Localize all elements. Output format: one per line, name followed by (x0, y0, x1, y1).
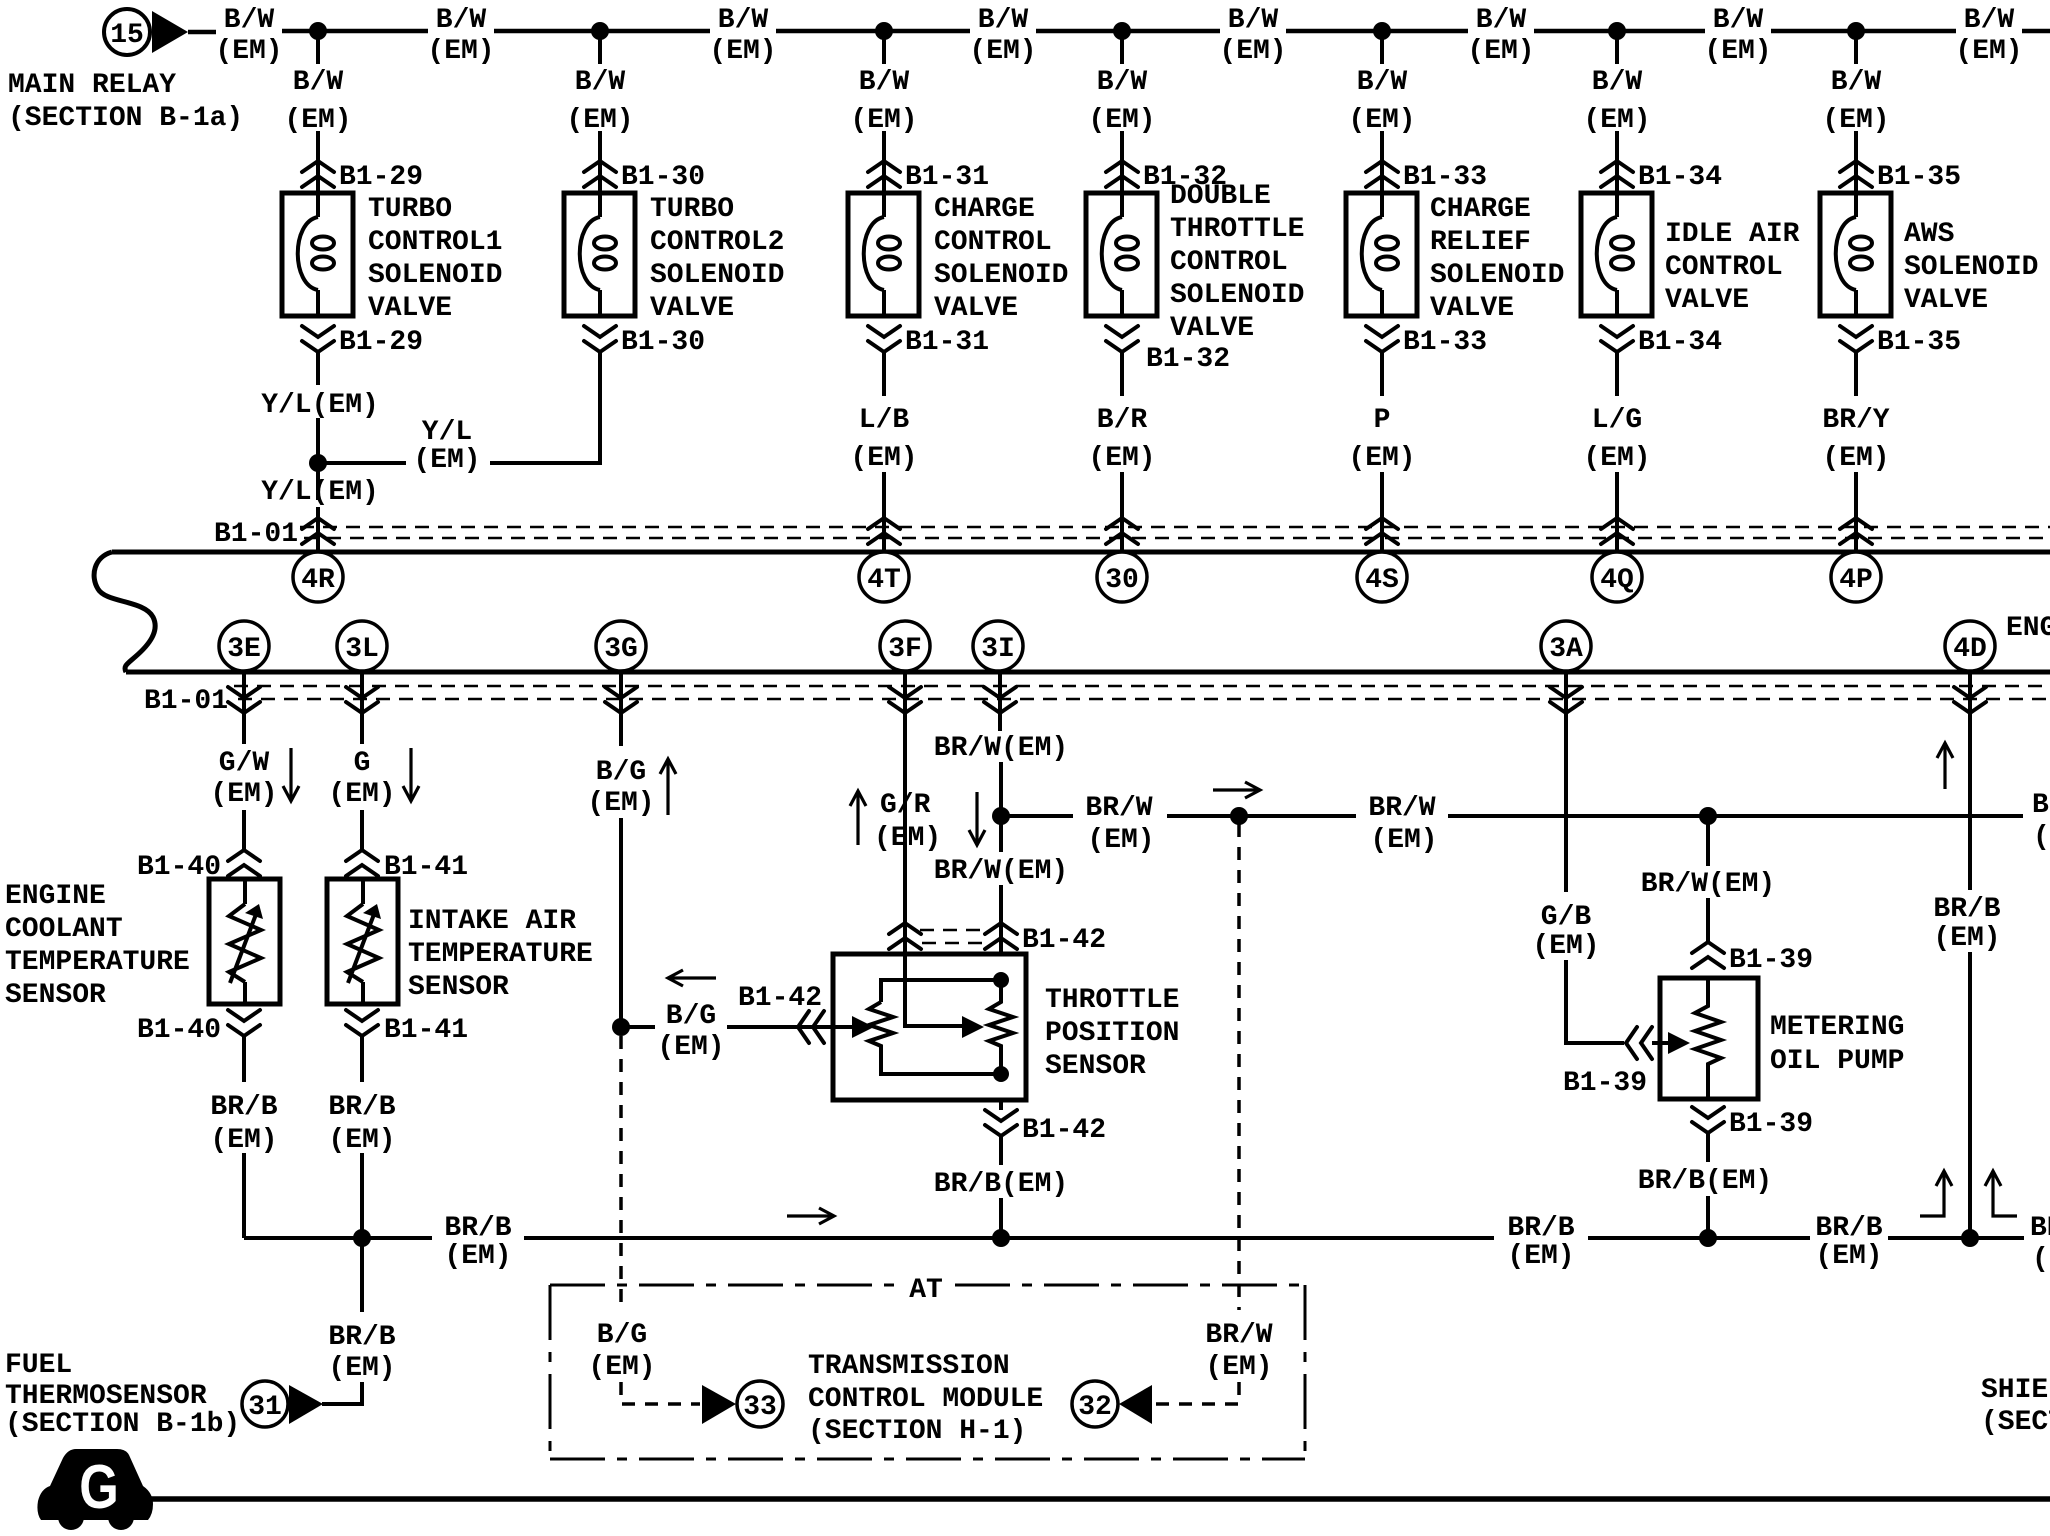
svg-text:B1-33: B1-33 (1403, 327, 1487, 358)
svg-text:CONTROL2: CONTROL2 (650, 227, 784, 258)
arrow triangle from connector 31 (289, 1385, 323, 1424)
svg-text:(EM): (EM) (850, 443, 917, 474)
connector B1-01 chevron col4 (1106, 518, 1138, 544)
wire BR/W top (934, 674, 1068, 816)
svg-text:BR/B: BR/B (1507, 1213, 1574, 1244)
svg-text:B/W: B/W (1592, 67, 1643, 98)
svg-text:SENSOR: SENSOR (5, 980, 106, 1011)
svg-text:B/W: B/W (1097, 67, 1148, 98)
connector B1-34 top (1601, 161, 1722, 193)
connector 3I (973, 621, 1023, 671)
svg-text:DOUBLE: DOUBLE (1170, 181, 1271, 212)
svg-text:G/R: G/R (880, 790, 931, 821)
svg-text:(EM): (EM) (1087, 825, 1154, 856)
svg-text:B/G: B/G (597, 1320, 647, 1351)
svg-text:3F: 3F (888, 634, 922, 665)
svg-text:TRANSMISSION: TRANSMISSION (808, 1351, 1010, 1382)
svg-text:BR/W: BR/W (1205, 1320, 1272, 1351)
svg-text:B/R: B/R (1097, 405, 1148, 436)
solenoid valve B1-30 turbo control 2 (564, 193, 784, 324)
label TRANSMISSION CONTROL MODULE (SECTION H-1) (808, 1351, 1043, 1447)
wire B/R col4 (1088, 352, 1155, 550)
svg-text:Y/L(EM): Y/L(EM) (261, 390, 379, 421)
svg-text:B/W: B/W (1964, 5, 2015, 36)
svg-text:(EM): (EM) (1933, 923, 2000, 954)
connector 4Q (1592, 552, 1642, 602)
svg-text:B/W: B/W (859, 67, 910, 98)
svg-text:ENGI: ENGI (2006, 613, 2050, 644)
wire B/W drop col3 (850, 31, 917, 193)
arrow up (G/R flow) (850, 791, 866, 845)
svg-text:(EM): (EM) (413, 445, 480, 476)
label B/W (EM) top bus segments (215, 5, 2022, 67)
svg-text:METERING: METERING (1770, 1012, 1904, 1043)
svg-text:VALVE: VALVE (1904, 285, 1988, 316)
svg-text:G/B: G/B (1541, 902, 1592, 933)
connector B1-41 top (346, 850, 468, 883)
svg-text:BR/B(EM): BR/B(EM) (934, 1169, 1068, 1200)
svg-text:(EM): (EM) (1205, 1352, 1272, 1383)
ground symbol G (car icon) (37, 1449, 153, 1530)
wire B/G (587, 674, 654, 1027)
svg-text:32: 32 (1078, 1392, 1112, 1423)
svg-text:(EM): (EM) (1348, 443, 1415, 474)
svg-text:(EM): (EM) (1370, 825, 1437, 856)
svg-text:(EM): (EM) (1507, 1241, 1574, 1272)
svg-text:3E: 3E (227, 634, 261, 665)
svg-text:B1-35: B1-35 (1877, 327, 1961, 358)
wire BR/W down from junction (1641, 816, 1775, 941)
svg-text:BR/W: BR/W (1368, 793, 1435, 824)
svg-text:B/W: B/W (436, 5, 487, 36)
node BR/B junction at TPS column (992, 1229, 1010, 1247)
svg-text:B1-30: B1-30 (621, 327, 705, 358)
svg-text:B/W: B/W (978, 5, 1029, 36)
connector B1-33 bottom (1366, 326, 1487, 358)
label FUEL THERMOSENSOR (SECTION B-1b) (5, 1350, 240, 1440)
svg-text:(SECTION B-1b): (SECTION B-1b) (5, 1409, 240, 1440)
svg-text:(E: (E (2033, 822, 2050, 853)
svg-text:B1-42: B1-42 (1022, 1115, 1106, 1146)
svg-text:(EM): (EM) (1088, 105, 1155, 136)
wiper arrow into oil pump pot (1668, 1032, 1690, 1054)
svg-text:33: 33 (743, 1392, 777, 1423)
wire G/W (210, 674, 277, 849)
svg-text:(EM): (EM) (1704, 36, 1771, 67)
svg-text:B/W: B/W (1831, 67, 1882, 98)
wire B/G to throttle position sensor (621, 983, 852, 1063)
svg-text:(EM): (EM) (1815, 1241, 1882, 1272)
svg-text:4T: 4T (867, 565, 901, 596)
svg-text:CONTROL: CONTROL (934, 227, 1052, 258)
svg-text:(EM): (EM) (1532, 931, 1599, 962)
svg-text:CONTROL: CONTROL (1665, 252, 1783, 283)
svg-text:SOLENOID: SOLENOID (1170, 280, 1304, 311)
wire Y/L col2 to junction (318, 352, 600, 476)
wire top bus B/W (EM) (188, 31, 2050, 32)
svg-text:B1-42: B1-42 (1022, 925, 1106, 956)
svg-text:(SECTION B-1a): (SECTION B-1a) (8, 103, 243, 134)
svg-text:TURBO: TURBO (368, 194, 452, 225)
svg-text:B1-01: B1-01 (214, 519, 298, 550)
svg-text:TURBO: TURBO (650, 194, 734, 225)
svg-text:B1-34: B1-34 (1638, 162, 1722, 193)
connector 15 (main relay feed) (104, 9, 150, 55)
connector 31 (242, 1381, 288, 1427)
svg-text:SHIELD: SHIELD (1981, 1375, 2050, 1406)
label SHIELD (cut at edge) (1981, 1375, 2050, 1438)
wire BR/B below TPS (934, 1100, 1068, 1238)
connector 3A (1541, 621, 1591, 671)
connector B1-01 chevron col7 (1840, 518, 1872, 544)
arrow right (BR/W flow) (1213, 782, 1260, 798)
connector B1-01 chevron col3 (868, 518, 900, 544)
svg-text:(EM): (EM) (328, 1125, 395, 1156)
label BR/B cut at right edge (2030, 1213, 2050, 1275)
wire P col5 (1348, 352, 1415, 550)
connector 32 (1072, 1381, 1118, 1427)
svg-text:15: 15 (110, 20, 144, 51)
svg-text:(EM): (EM) (566, 105, 633, 136)
svg-text:(SECTI: (SECTI (1981, 1407, 2050, 1438)
connector 4T (859, 552, 909, 602)
wire BR/B col 3E (210, 1036, 277, 1238)
connector B1-30 bottom (584, 326, 705, 358)
solenoid valve B1-33 charge relief (1346, 193, 1564, 324)
engine coolant temperature sensor B1-40 (5, 879, 280, 1011)
svg-text:P: P (1374, 405, 1391, 436)
connector B1-42 chevrons above TPS (889, 923, 1106, 956)
svg-text:(EM): (EM) (587, 788, 654, 819)
wire B/W drop col1 (284, 31, 351, 193)
connector B1-01 chevron col5 (1366, 518, 1398, 544)
throttle position sensor B1-42 (833, 954, 1179, 1100)
wire BR/B right column (1933, 674, 2000, 1238)
svg-text:ENGINE: ENGINE (5, 881, 106, 912)
connector B1-01 chevrons below bus 2 (228, 687, 1986, 713)
ground wire (148, 1496, 2050, 1502)
svg-text:30: 30 (1105, 565, 1139, 596)
svg-text:BR/W(EM): BR/W(EM) (934, 856, 1068, 887)
label BR/W cut at right edge (2032, 790, 2050, 853)
svg-text:CHARGE: CHARGE (934, 194, 1035, 225)
connector B1-30 top (584, 161, 705, 193)
connector 3L (337, 621, 387, 671)
connector 3F (880, 621, 930, 671)
svg-text:INTAKE AIR: INTAKE AIR (408, 906, 576, 937)
wiper arrow into left pot (852, 1016, 874, 1038)
connector B1-42 bottom (985, 1110, 1106, 1146)
svg-text:(EM): (EM) (427, 36, 494, 67)
svg-text:THROTTLE: THROTTLE (1170, 214, 1304, 245)
svg-text:SOLENOID: SOLENOID (1904, 252, 2038, 283)
svg-text:B1-29: B1-29 (339, 162, 423, 193)
svg-text:4Q: 4Q (1600, 565, 1634, 596)
svg-text:3L: 3L (345, 634, 379, 665)
wire G/R (903, 674, 907, 954)
svg-text:BR/W(EM): BR/W(EM) (934, 733, 1068, 764)
svg-text:AWS: AWS (1904, 219, 1954, 250)
svg-text:CONTROL MODULE: CONTROL MODULE (808, 1384, 1043, 1415)
svg-text:VALVE: VALVE (934, 293, 1018, 324)
svg-text:G/W: G/W (219, 748, 270, 779)
svg-text:VALVE: VALVE (368, 293, 452, 324)
svg-text:SENSOR: SENSOR (1045, 1051, 1146, 1082)
svg-text:BR/B: BR/B (210, 1092, 277, 1123)
arrow triangle into connector 32 (1119, 1385, 1152, 1424)
svg-text:BR/W: BR/W (1085, 793, 1152, 824)
wire BR/B down to fuel thermosensor (322, 1238, 396, 1404)
svg-text:B1-39: B1-39 (1729, 945, 1813, 976)
svg-text:4D: 4D (1953, 634, 1987, 665)
connector B1-29 top (302, 161, 423, 193)
arrow down (G flow) (403, 748, 419, 801)
svg-text:VALVE: VALVE (1430, 293, 1514, 324)
svg-text:G: G (354, 748, 371, 779)
svg-text:B1-34: B1-34 (1638, 327, 1722, 358)
connector B1-32 bottom (1106, 326, 1230, 375)
svg-text:B/W: B/W (1357, 67, 1408, 98)
arrow right (BR/B flow) (787, 1208, 834, 1224)
connector B1-31 top (868, 161, 989, 193)
connector B1-39 left chevron (1626, 1027, 1652, 1059)
svg-text:(EM): (EM) (328, 1353, 395, 1384)
connector B1-40 bottom (137, 1010, 260, 1046)
svg-text:B/W: B/W (1476, 5, 1527, 36)
arrow up (B/G flow) (660, 759, 676, 815)
svg-text:(EM): (EM) (709, 36, 776, 67)
bus line 1 (ECU connector 4) (112, 550, 2050, 555)
svg-text:B/W: B/W (1228, 5, 1279, 36)
connector B1-41 bottom (346, 1010, 468, 1046)
arrow down (G/W flow) (283, 748, 299, 801)
svg-text:3I: 3I (981, 634, 1015, 665)
junction dots on top bus (309, 22, 1865, 40)
arrow up (4D flow) (1937, 743, 1953, 789)
connector B1-35 bottom (1840, 326, 1961, 358)
solenoid valve B1-31 charge control (848, 193, 1068, 324)
label MAIN RELAY (SECTION B-1a) (8, 70, 243, 134)
wire G/B (1532, 674, 1668, 1099)
connector B1-32 top (1106, 161, 1227, 193)
wire BR/B col 3L (328, 1036, 395, 1238)
arrow triangle from connector 15 (152, 11, 188, 53)
wire BR/W down into TPS (934, 816, 1068, 954)
B1-01 dashed harness lines upper (300, 527, 2050, 538)
wire BR/B below oil pump (1638, 1133, 1772, 1238)
bus line 2 (ECU connector 3) (126, 670, 2050, 675)
svg-text:THERMOSENSOR: THERMOSENSOR (5, 1381, 207, 1412)
connector B1-29 bottom (302, 326, 423, 358)
svg-text:POSITION: POSITION (1045, 1018, 1179, 1049)
node BR/W junction to metering oil pump (1699, 807, 1717, 825)
bus continuation S-curve (94, 552, 155, 672)
connector B1-01 chevron col6 (1601, 518, 1633, 544)
svg-text:(EM): (EM) (1583, 105, 1650, 136)
svg-text:(EM): (EM) (328, 779, 395, 810)
metering oil pump B1-39 (1660, 978, 1904, 1099)
AT box dash-dot border (550, 1275, 1305, 1459)
arrow left (B1-42 flow) (668, 970, 716, 986)
node BR/B junction at oil pump column (1699, 1229, 1717, 1247)
wire BR/Y col7 (1822, 352, 1889, 550)
svg-text:(EM): (EM) (1583, 443, 1650, 474)
svg-text:TEMPERATURE: TEMPERATURE (408, 939, 593, 970)
svg-text:SENSOR: SENSOR (408, 972, 509, 1003)
arrow triangle into connector 33 (702, 1385, 736, 1424)
connector B1-34 bottom (1601, 326, 1722, 358)
connector B1-33 top (1366, 161, 1487, 193)
connector 30 (1097, 552, 1147, 602)
idle air control valve B1-34 (1581, 193, 1800, 316)
solenoid valve B1-32 double throttle control (1086, 181, 1304, 344)
B1-01 dashed harness lines lower (234, 686, 2050, 699)
svg-text:RELIEF: RELIEF (1430, 227, 1531, 258)
svg-text:3A: 3A (1549, 634, 1583, 665)
svg-text:VALVE: VALVE (650, 293, 734, 324)
svg-text:4R: 4R (301, 565, 335, 596)
svg-text:B1-31: B1-31 (905, 162, 989, 193)
intake air temperature sensor B1-41 (327, 879, 593, 1004)
svg-text:G: G (79, 1453, 119, 1522)
svg-text:B/W: B/W (224, 5, 275, 36)
node Y/L junction (309, 454, 327, 472)
svg-text:CHARGE: CHARGE (1430, 194, 1531, 225)
svg-text:AT: AT (909, 1275, 943, 1306)
connector 4D (1945, 621, 1995, 671)
svg-text:(EM): (EM) (850, 105, 917, 136)
svg-text:BR/W(EM): BR/W(EM) (1641, 869, 1775, 900)
connector B1-42 left chevron (798, 1011, 824, 1043)
svg-text:B/W: B/W (575, 67, 626, 98)
svg-text:B1-41: B1-41 (384, 1015, 468, 1046)
svg-text:(EM): (EM) (1219, 36, 1286, 67)
svg-text:(EM): (EM) (1822, 105, 1889, 136)
dashed wire B/G to TCM (588, 1036, 700, 1404)
wire Y/L col1 (261, 352, 379, 550)
svg-text:VALVE: VALVE (1665, 285, 1749, 316)
svg-text:B1-01: B1-01 (144, 686, 228, 717)
connector B1-01 chevron col1 (302, 518, 334, 544)
svg-text:FUEL: FUEL (5, 1350, 72, 1381)
arrow up continuation right of 4D (1985, 1171, 2017, 1216)
svg-text:B1-40: B1-40 (137, 1015, 221, 1046)
svg-text:Y/L: Y/L (422, 417, 472, 448)
svg-text:B1-39: B1-39 (1729, 1109, 1813, 1140)
svg-text:31: 31 (248, 1392, 282, 1423)
svg-text:(E: (E (2032, 1244, 2050, 1275)
svg-text:BR/B: BR/B (1815, 1213, 1882, 1244)
svg-text:4S: 4S (1365, 565, 1399, 596)
wire BR/B bus (244, 1213, 2024, 1272)
svg-text:(EM): (EM) (210, 779, 277, 810)
connector 3G (596, 621, 646, 671)
svg-text:B/G: B/G (666, 1001, 716, 1032)
svg-text:COOLANT: COOLANT (5, 914, 123, 945)
svg-text:CONTROL1: CONTROL1 (368, 227, 502, 258)
svg-text:B1-31: B1-31 (905, 327, 989, 358)
arrow down (BR/W flow) (969, 792, 985, 845)
connector B1-39 bottom (1692, 1107, 1813, 1140)
svg-text:BR/Y: BR/Y (1822, 405, 1889, 436)
AWS solenoid valve B1-35 (1820, 193, 2038, 316)
svg-text:B1-30: B1-30 (621, 162, 705, 193)
svg-text:(EM): (EM) (588, 1352, 655, 1383)
svg-text:SOLENOID: SOLENOID (934, 260, 1068, 291)
wire L/G col6 (1583, 352, 1650, 550)
svg-text:BR/B(EM): BR/B(EM) (1638, 1166, 1772, 1197)
svg-text:B1-29: B1-29 (339, 327, 423, 358)
wire B/W drop col6 (1583, 31, 1650, 193)
connector B1-39 top (1692, 942, 1813, 976)
svg-text:(EM): (EM) (215, 36, 282, 67)
svg-text:(EM): (EM) (657, 1032, 724, 1063)
wire L/B col3 (850, 352, 917, 550)
svg-text:BR/B: BR/B (444, 1213, 511, 1244)
svg-text:BR: BR (2032, 790, 2050, 821)
svg-text:SOLENOID: SOLENOID (368, 260, 502, 291)
label G/R (EM) (874, 790, 941, 854)
node BR/W junction to TCM (1230, 807, 1248, 825)
svg-text:3G: 3G (604, 634, 638, 665)
node BR/B junction at 3L column (353, 1229, 371, 1247)
node BR/B junction at 4D column (1961, 1229, 1979, 1247)
node B/G junction (612, 1018, 630, 1036)
wire B/W drop col5 (1348, 31, 1415, 193)
svg-text:VALVE: VALVE (1170, 313, 1254, 344)
wire B/W drop col7 (1822, 31, 1889, 193)
svg-text:(EM): (EM) (874, 823, 941, 854)
connector B1-35 top (1840, 161, 1961, 193)
connector B1-40 top (137, 850, 260, 883)
connector 4S (1357, 552, 1407, 602)
svg-text:(EM): (EM) (1467, 36, 1534, 67)
connector 33 (737, 1381, 783, 1427)
svg-text:SOLENOID: SOLENOID (1430, 260, 1564, 291)
svg-text:BR: BR (2030, 1213, 2050, 1244)
svg-text:B/W: B/W (718, 5, 769, 36)
svg-text:BR/B: BR/B (328, 1092, 395, 1123)
svg-text:(EM): (EM) (1348, 105, 1415, 136)
svg-text:4P: 4P (1839, 565, 1873, 596)
svg-text:Y/L(EM): Y/L(EM) (261, 477, 379, 508)
connector 3E (219, 621, 269, 671)
arrow up continuation left of 4D (1920, 1171, 1952, 1216)
wire B/W drop col2 (566, 31, 633, 193)
svg-text:MAIN RELAY: MAIN RELAY (8, 70, 176, 101)
svg-text:B1-32: B1-32 (1146, 344, 1230, 375)
svg-text:CONTROL: CONTROL (1170, 247, 1288, 278)
svg-text:(EM): (EM) (1955, 36, 2022, 67)
connector 4R (293, 552, 343, 602)
svg-text:BR/B: BR/B (1933, 894, 2000, 925)
svg-text:BR/B: BR/B (328, 1322, 395, 1353)
svg-text:(EM): (EM) (1822, 443, 1889, 474)
connector 4P (1831, 552, 1881, 602)
svg-text:(SECTION H-1): (SECTION H-1) (808, 1416, 1026, 1447)
solenoid valve B1-29 turbo control 1 (282, 193, 502, 324)
svg-text:(EM): (EM) (969, 36, 1036, 67)
svg-text:L/G: L/G (1592, 405, 1642, 436)
svg-text:THROTTLE: THROTTLE (1045, 985, 1179, 1016)
svg-text:TEMPERATURE: TEMPERATURE (5, 947, 190, 978)
svg-text:(EM): (EM) (210, 1125, 277, 1156)
svg-text:B/G: B/G (596, 757, 646, 788)
dashed wire BR/W to TCM (1152, 824, 1273, 1404)
svg-text:(EM): (EM) (444, 1241, 511, 1272)
svg-text:L/B: L/B (859, 405, 910, 436)
svg-text:IDLE AIR: IDLE AIR (1665, 219, 1800, 250)
